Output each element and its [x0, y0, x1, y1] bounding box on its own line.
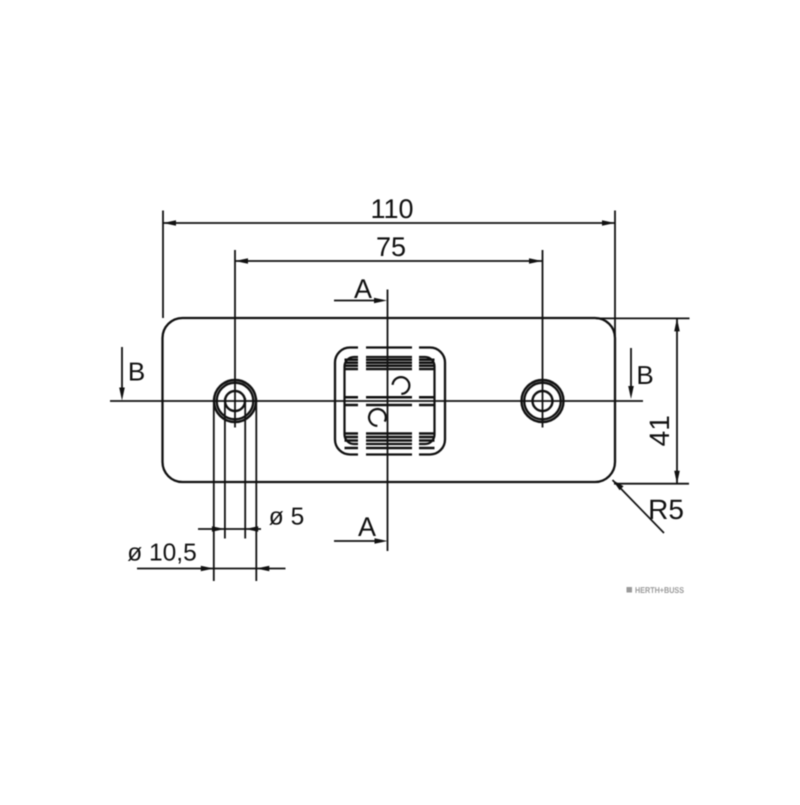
pad rib lines middle band [345, 397, 435, 405]
plate outline [163, 318, 616, 482]
dim 75 line [235, 260, 542, 262]
hole tangent extension line outer left [213, 398, 215, 581]
section marker A top arrow [334, 300, 380, 302]
svg-text:75: 75 [376, 232, 406, 262]
right hole middle circle [524, 383, 561, 420]
dim 110 right arrow [602, 220, 615, 226]
right hole outer circle [522, 380, 564, 422]
central pad outer outline [335, 348, 445, 455]
svg-text:R5: R5 [648, 494, 684, 525]
svg-text:A: A [358, 512, 376, 542]
dim 41 line [676, 318, 678, 483]
right hole inner circle [533, 391, 553, 411]
hole tangent extension line inner right [244, 398, 246, 539]
dim dia5 left arrow [212, 526, 225, 532]
section marker B left arrow [121, 347, 123, 394]
dim 110 right extension line [614, 211, 616, 340]
section marker B right arrow [630, 348, 632, 393]
dim 110 left arrow [163, 220, 176, 226]
dim 75 right arrow [529, 258, 542, 264]
dim dia10.5 right arrow [256, 566, 269, 572]
dim dia5 line [198, 528, 261, 530]
pad rib lines top band [345, 360, 435, 369]
dim dia5 right arrow [245, 526, 258, 532]
section line B-B horizontal [110, 400, 643, 402]
svg-text:HERTH+BUSS: HERTH+BUSS [635, 585, 684, 595]
dim 110 line [163, 222, 615, 224]
svg-text:B: B [636, 360, 653, 390]
left hole outer circle [214, 380, 256, 422]
svg-text:B: B [128, 357, 145, 387]
left hole middle circle [217, 383, 254, 420]
hole tangent extension line inner left [224, 398, 226, 539]
watermark logo [627, 585, 685, 595]
dim dia10.5 line [137, 568, 286, 570]
svg-text:ø 5: ø 5 [269, 504, 304, 531]
pad slot gap right [412, 344, 419, 458]
svg-text:110: 110 [370, 194, 413, 224]
dim 110 left extension line [162, 211, 164, 319]
central pad inner outline [345, 357, 435, 444]
hole tangent extension line outer right [255, 398, 257, 581]
dim 41 top extension line [596, 317, 690, 319]
section line A-A vertical [387, 290, 389, 552]
pad rib lines bottom band [345, 434, 435, 449]
left hole inner circle [225, 391, 245, 411]
svg-text:ø 10,5: ø 10,5 [127, 540, 196, 567]
right hole centerline [542, 250, 544, 428]
pad slot gap left [358, 344, 366, 458]
section marker A bottom arrow [334, 540, 381, 542]
pad detail arc upper [393, 377, 410, 394]
svg-text:41: 41 [644, 415, 675, 446]
dim dia10.5 left arrow [201, 566, 214, 572]
dim 41 bottom arrow [674, 471, 680, 484]
dim 75 left arrow [235, 258, 248, 264]
dim 41 bottom extension line [614, 483, 689, 485]
dim 41 top arrow [674, 318, 680, 331]
pad detail arc lower [369, 409, 386, 426]
left hole centerline [234, 250, 236, 428]
radius leader R5 [613, 480, 665, 533]
svg-text:A: A [354, 274, 372, 304]
